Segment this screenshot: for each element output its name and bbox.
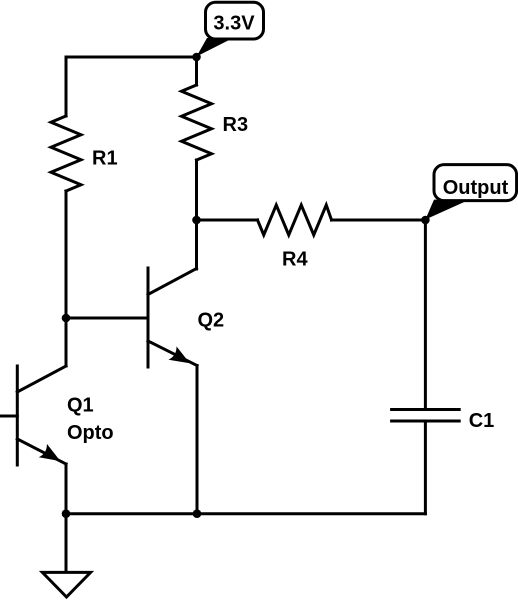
transistor Q1 emitter diagonal bbox=[17, 439, 66, 464]
wire top rail from R1 to 3.3V node bbox=[66, 57, 197, 116]
wire Q2 base node down to Q1 collector bbox=[65, 318, 68, 366]
resistor R3 bbox=[182, 85, 212, 160]
node ground rail left bbox=[62, 509, 71, 518]
power flag 3.3V box bbox=[206, 2, 264, 39]
capacitor C1 bottom plate bbox=[392, 420, 460, 423]
wire output node down to C1 top plate bbox=[424, 220, 427, 410]
power flag 3.3V tail bbox=[197, 38, 234, 57]
svg-text:Output: Output bbox=[443, 177, 509, 199]
node at 3.3V supply bbox=[192, 53, 201, 62]
wire Q2 emitter down to ground rail bbox=[196, 366, 199, 514]
svg-text:R3: R3 bbox=[223, 114, 249, 136]
node at Output bbox=[421, 216, 430, 225]
node at R3/R4 junction bbox=[192, 216, 201, 225]
transistor Q1 collector diagonal bbox=[17, 366, 66, 392]
output flag tail bbox=[425, 200, 469, 220]
wire ground stem bbox=[65, 514, 68, 572]
svg-text:R4: R4 bbox=[282, 248, 308, 270]
transistor Q2 collector diagonal bbox=[148, 269, 197, 295]
wire R3 top lead from 3.3V node bbox=[195, 57, 198, 85]
transistor Q1 emitter arrowhead bbox=[39, 444, 61, 461]
node ground rail middle bbox=[193, 509, 202, 518]
transistor Q1 base bar bbox=[16, 366, 19, 465]
output flag box bbox=[434, 165, 517, 201]
wire R4 left lead bbox=[197, 219, 258, 222]
resistor R4 bbox=[258, 205, 332, 235]
wire Q1 emitter down to ground rail bbox=[65, 464, 68, 514]
transistor Q1 base stub bbox=[0, 415, 17, 418]
node at Q2 base / R1 junction bbox=[62, 314, 71, 323]
transistor Q2 emitter arrowhead bbox=[169, 346, 190, 363]
transistor Q2 base bar bbox=[147, 268, 150, 367]
transistor Q2 emitter diagonal bbox=[148, 341, 197, 366]
wire R4 right lead to output node bbox=[332, 219, 426, 222]
svg-text:C1: C1 bbox=[469, 410, 495, 432]
svg-text:Opto: Opto bbox=[67, 422, 114, 444]
svg-text:Q1: Q1 bbox=[67, 395, 94, 417]
transistor Q2 base wire bbox=[66, 317, 148, 320]
wire ground rail bbox=[66, 512, 425, 515]
wire C1 bottom plate down to ground rail bbox=[424, 421, 427, 514]
capacitor C1 top plate bbox=[392, 408, 460, 411]
svg-text:Q2: Q2 bbox=[198, 310, 225, 332]
wire R3 bottom to node bbox=[195, 160, 198, 220]
svg-text:R1: R1 bbox=[92, 148, 118, 170]
ground symbol bbox=[42, 572, 90, 597]
wire node down to Q2 collector bbox=[195, 220, 198, 269]
wire R1 bottom down to Q2 base node bbox=[65, 191, 68, 318]
svg-text:3.3V: 3.3V bbox=[213, 12, 255, 34]
resistor R1 bbox=[51, 116, 81, 191]
